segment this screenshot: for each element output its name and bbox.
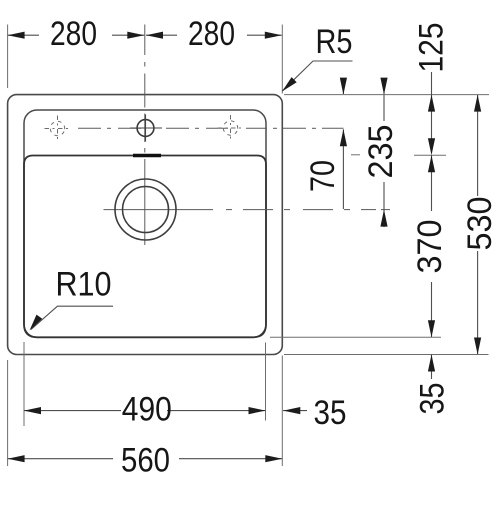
svg-text:490: 490 (122, 391, 172, 429)
extension 490 left (23, 342, 25, 426)
arrow 235 top (380, 78, 387, 95)
R5 leader (283, 61, 353, 91)
svg-text:235: 235 (362, 125, 400, 179)
sink inner rim / deck outline (24, 110, 266, 337)
dim 35 right tail (431, 355, 433, 380)
vertical center line (144, 25, 146, 246)
svg-text:R10: R10 (56, 266, 112, 304)
arrow 70 top (340, 78, 347, 95)
extension bowl top dash (351, 154, 360, 156)
arrow 280L left (8, 32, 25, 39)
svg-text:530: 530 (461, 197, 499, 251)
arrow 530 top (474, 95, 481, 112)
extension 560 right (281, 356, 283, 467)
extension top edge right (284, 94, 489, 96)
arrow 35 bottom (283, 407, 300, 414)
extension bowl bottom right (270, 336, 441, 338)
dim 35 bottom tail (283, 410, 307, 412)
arrow 490 left (24, 407, 41, 414)
svg-text:R5: R5 (316, 23, 353, 61)
dim 70 line (342, 81, 344, 209)
arrow 280R right (265, 32, 282, 39)
arrow 370 bottom (428, 320, 435, 337)
bowl outline 490x370 (24, 156, 266, 338)
R10 arrow (30, 315, 43, 331)
right knockout tap hole (218, 115, 244, 142)
sink outer edge 560x530 (8, 95, 283, 355)
extension line top right (281, 25, 283, 94)
dim 560 line (8, 458, 283, 460)
arrow 370 top (428, 155, 435, 172)
dim 530 line (477, 95, 479, 354)
drain outer circle (115, 179, 176, 240)
arrow 280R left (146, 32, 163, 39)
extension 560 left (7, 360, 9, 466)
overflow slot mark (133, 154, 161, 157)
tap hole axis line (78, 127, 344, 129)
tap hole cross horizontal (130, 127, 162, 129)
extension line top left (7, 25, 9, 89)
svg-text:35: 35 (314, 394, 347, 432)
arrow 490 right (249, 407, 266, 414)
tap hole cross vertical (145, 115, 147, 142)
arrow 280L right (127, 32, 144, 39)
tap hole center circle (137, 120, 154, 137)
dim line 280 left (8, 34, 145, 36)
svg-text:370: 370 (411, 220, 449, 274)
R5 arrow (282, 77, 297, 91)
dim 490 line (24, 410, 266, 412)
left knockout tap hole (45, 116, 71, 143)
dim 235 line (383, 79, 385, 227)
arrow 560 left (8, 455, 25, 462)
arrow 235 bottom (380, 210, 387, 227)
extension bowl top tick (414, 154, 446, 156)
svg-text:560: 560 (121, 441, 170, 479)
arrow 125 top (428, 95, 435, 112)
arrow 70 bottom (340, 129, 347, 146)
dim 370 line (431, 155, 433, 337)
dim line 280 right (146, 34, 282, 36)
arrow 125 bottom (428, 138, 435, 155)
drain inner circle (123, 187, 169, 233)
R10 leader (31, 306, 113, 329)
svg-text:280: 280 (188, 15, 235, 53)
dim 125 leader (431, 72, 433, 148)
extension 490 right (265, 343, 267, 421)
arrow 35 right (428, 355, 435, 372)
arrow 530 bottom (474, 338, 481, 355)
arrow 560 right (265, 455, 282, 462)
svg-text:35: 35 (414, 383, 452, 415)
drain center line (104, 209, 391, 211)
extension outer bottom right (284, 354, 489, 356)
svg-text:125: 125 (413, 23, 451, 73)
svg-text:280: 280 (50, 15, 97, 53)
svg-text:70: 70 (304, 160, 342, 192)
